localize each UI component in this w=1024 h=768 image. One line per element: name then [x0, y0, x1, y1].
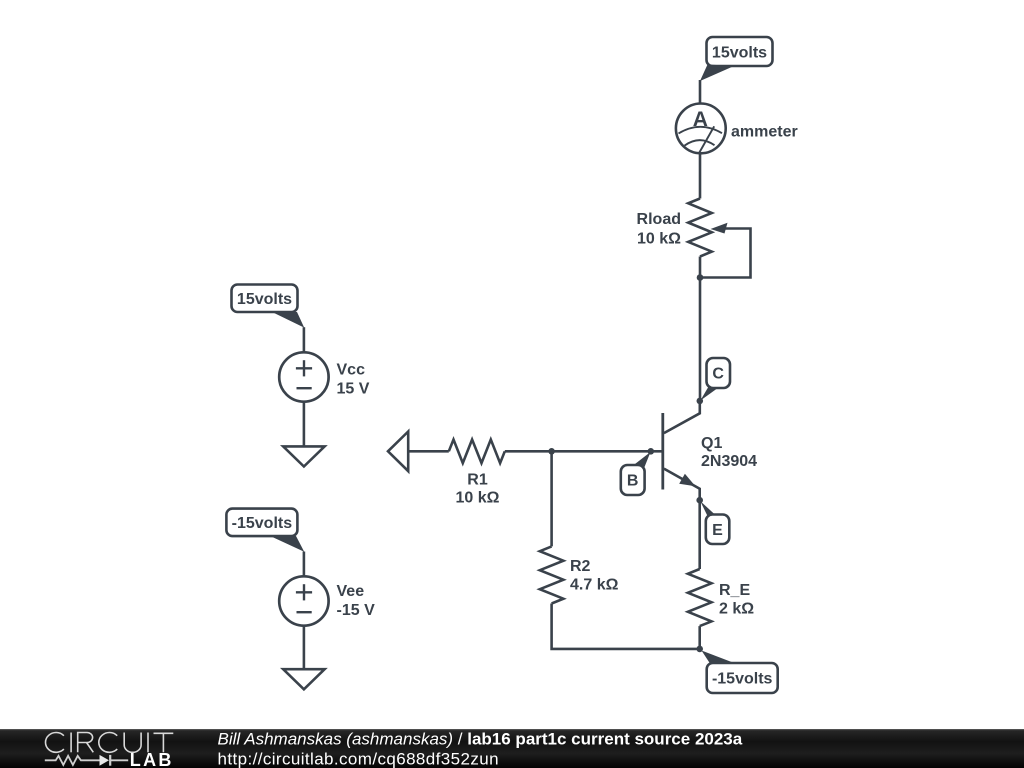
wire flag to ammeter: [699, 80, 702, 104]
wire Vee to ground: [303, 626, 306, 670]
wire Rload to node C: [699, 257, 702, 401]
svg-text:15volts: 15volts: [237, 291, 292, 308]
flag 15volts (top): [700, 37, 773, 81]
node E dot: [696, 497, 703, 504]
wire R_E to bottom junction: [698, 626, 701, 649]
junction (Rload bottom / bypass): [697, 274, 704, 281]
svg-text:-15volts: -15volts: [712, 671, 773, 688]
svg-text:2N3904: 2N3904: [701, 453, 757, 470]
ground (Vee): [283, 669, 324, 689]
wire flag to Vcc: [303, 327, 306, 352]
svg-text:10 kΩ: 10 kΩ: [637, 231, 681, 248]
ground (Vcc): [283, 446, 324, 466]
svg-text:15volts: 15volts: [712, 44, 767, 61]
CircuitLab logo CIRCUIT: [45, 733, 173, 753]
svg-text:Vcc: Vcc: [337, 362, 366, 379]
resistor R2: [540, 546, 564, 603]
svg-text:R_E: R_E: [719, 582, 750, 599]
svg-text:E: E: [712, 522, 723, 539]
wire R2 to bottom rail: [552, 604, 700, 649]
node B label: [621, 452, 651, 495]
svg-text:15 V: 15 V: [337, 381, 370, 398]
svg-text:2 kΩ: 2 kΩ: [719, 601, 754, 618]
wire wiper bypass: [700, 229, 751, 278]
svg-text:Vee: Vee: [337, 583, 365, 600]
CircuitLab logo resistor-diode glyph: [45, 755, 128, 766]
rheostat Rload: [688, 199, 727, 257]
svg-text:-15volts: -15volts: [232, 515, 293, 532]
flag -15volts (Vee): [226, 509, 304, 552]
svg-text:R1: R1: [467, 472, 488, 489]
transistor Q1: [663, 401, 700, 500]
svg-text:-15 V: -15 V: [337, 602, 376, 619]
footer bar: [0, 729, 1024, 768]
svg-text:10 kΩ: 10 kΩ: [456, 490, 500, 507]
svg-text:Bill Ashmanskas (ashmanskas) /: Bill Ashmanskas (ashmanskas) / lab16 par…: [218, 729, 743, 748]
svg-text:LAB: LAB: [130, 750, 174, 768]
wire port to R1: [408, 450, 449, 453]
svg-text:ammeter: ammeter: [731, 124, 798, 141]
wire ammeter to Rload: [699, 153, 702, 198]
node C dot: [697, 398, 704, 405]
svg-text:R2: R2: [570, 558, 591, 575]
svg-text:Q1: Q1: [701, 435, 722, 452]
wire flag to Vee: [303, 552, 306, 577]
bottom junction dot: [696, 646, 703, 653]
svg-text:C: C: [712, 366, 724, 383]
wire R2 branch down: [550, 451, 553, 546]
resistor R_E: [688, 569, 712, 626]
ammeter AM1: [676, 103, 726, 153]
svg-text:B: B: [627, 473, 639, 490]
svg-text:4.7 kΩ: 4.7 kΩ: [570, 577, 619, 594]
voltage source Vcc: [279, 352, 328, 401]
wire Vcc to ground: [303, 402, 306, 447]
flag 15volts (Vcc): [232, 285, 305, 328]
node C label: [700, 358, 730, 401]
wire R1 to base: [505, 450, 663, 453]
svg-text:Rload: Rload: [637, 211, 681, 228]
flag -15volts (bottom): [702, 651, 778, 694]
svg-text:http://circuitlab.com/cq688df3: http://circuitlab.com/cq688df352zun: [218, 750, 499, 768]
voltage source Vee: [279, 576, 328, 625]
resistor R1: [449, 440, 505, 464]
wire E to R_E: [698, 500, 701, 569]
node B dot: [648, 448, 655, 455]
node E label: [700, 501, 729, 544]
junction base wire / R2: [548, 448, 555, 455]
input port arrow: [388, 432, 408, 472]
